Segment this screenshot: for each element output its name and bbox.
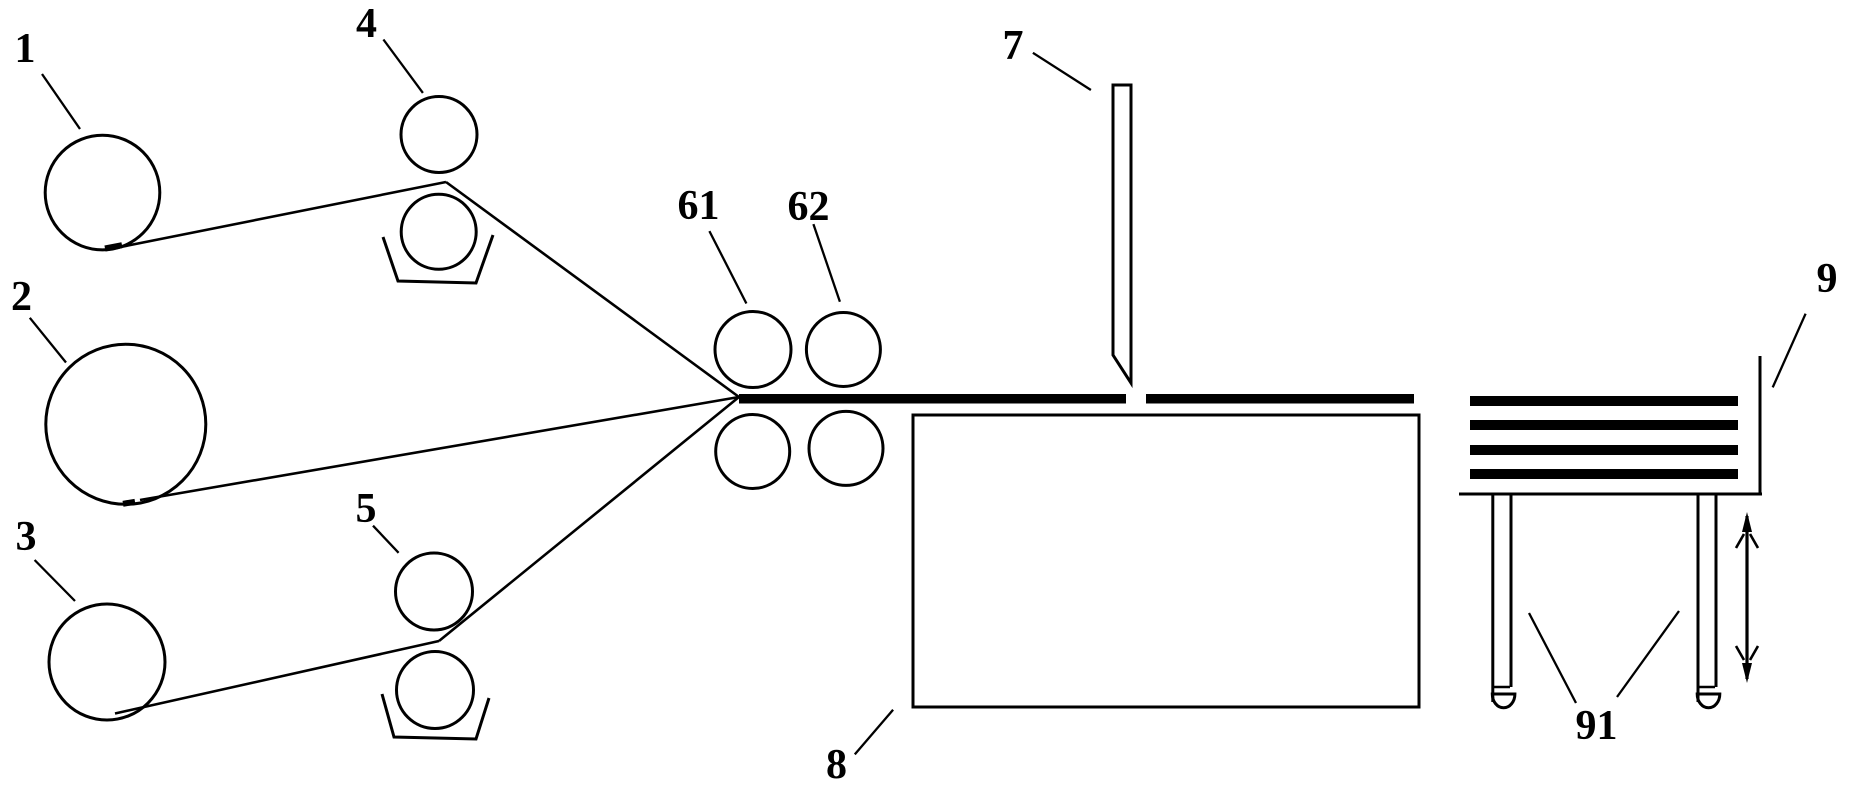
- leader line to roller 62: [813, 224, 840, 302]
- leader line from right caster to label 91: [1617, 611, 1679, 697]
- right caster wheel: [1697, 694, 1720, 708]
- laminated web thick segment left of cutter: [739, 394, 1126, 404]
- nip roller 62 lower: [809, 411, 883, 485]
- laminated web thick segment right of cutter: [1146, 394, 1414, 404]
- web from roll 2 to nip rollers: [140, 397, 739, 500]
- height adjustment double arrow shaft: [1745, 516, 1748, 679]
- nip roller 61 lower: [716, 415, 790, 489]
- table leg right outer line: [1697, 494, 1700, 702]
- left caster wheel: [1492, 694, 1515, 708]
- svg-text:2: 2: [11, 274, 32, 320]
- tangent mark on roll 2: [123, 502, 135, 504]
- guide roller pair 5 upper: [396, 553, 473, 630]
- svg-text:1: 1: [15, 26, 36, 72]
- svg-text:62: 62: [788, 184, 830, 230]
- svg-text:5: 5: [356, 486, 377, 532]
- leader line to roll 2: [30, 318, 66, 363]
- collection box 8: [913, 415, 1419, 707]
- right leg axle line: [1698, 686, 1715, 689]
- stacked sheet 9 bar 1: [1470, 396, 1738, 406]
- svg-text:3: 3: [16, 514, 37, 560]
- guide roller pair 5 lower: [397, 652, 474, 729]
- table leg right inner line: [1715, 494, 1718, 687]
- table leg left outer line: [1491, 494, 1494, 702]
- leader line to roll 3: [35, 560, 75, 601]
- arrow bottom right barb: [1750, 646, 1758, 660]
- guide roller pair 4 lower: [401, 194, 476, 269]
- stacked sheet 9 bar 3: [1470, 445, 1738, 455]
- web from roll 1 to roller pair 4: [108, 182, 446, 250]
- web from roller pair 5 up to nip rollers: [439, 397, 739, 641]
- leader line to roller 4: [383, 40, 423, 93]
- arrow top right barb: [1750, 534, 1758, 548]
- nip roller 61 upper: [715, 312, 791, 388]
- leader line to roller 5: [373, 526, 399, 553]
- arrow top left barb: [1736, 534, 1744, 548]
- svg-text:61: 61: [678, 183, 720, 229]
- svg-text:4: 4: [356, 1, 377, 47]
- leader line to stacker 9: [1773, 314, 1806, 388]
- leader line to cutter 7: [1033, 53, 1091, 90]
- table leg left inner line: [1510, 494, 1513, 687]
- trough bracket under roller 4: [383, 235, 493, 283]
- tangent mark on roll 1: [105, 245, 122, 248]
- leader line to box 8: [855, 710, 893, 755]
- guide roller pair 4 upper: [401, 97, 477, 173]
- leader line to roll 1: [42, 74, 80, 129]
- left leg axle line: [1493, 686, 1510, 689]
- cutter blade 7: [1113, 85, 1131, 383]
- nip roller 62 upper: [806, 313, 880, 387]
- unwind roll 1: [45, 135, 160, 250]
- leader line to roller 61: [709, 231, 746, 303]
- stacked sheet 9 bar 2: [1470, 420, 1738, 430]
- svg-text:9: 9: [1817, 256, 1838, 302]
- web from roll 3 to roller pair 5: [115, 641, 439, 714]
- leader line from left caster to label 91: [1529, 613, 1576, 703]
- svg-text:91: 91: [1576, 703, 1618, 749]
- stacking table top: [1459, 493, 1762, 496]
- arrow top head: [1742, 512, 1752, 532]
- stacking table right end guide: [1759, 356, 1762, 494]
- unwind roll 3: [49, 604, 165, 720]
- trough bracket under roller 5: [382, 694, 489, 739]
- stacked sheet 9 bar 4: [1470, 469, 1738, 479]
- arrow bottom left barb: [1736, 646, 1744, 660]
- arrow bottom head: [1742, 663, 1752, 683]
- svg-text:7: 7: [1003, 23, 1024, 69]
- unwind roll 2: [46, 344, 206, 504]
- svg-text:8: 8: [826, 742, 847, 788]
- web from roller pair 4 down to nip rollers: [446, 182, 739, 397]
